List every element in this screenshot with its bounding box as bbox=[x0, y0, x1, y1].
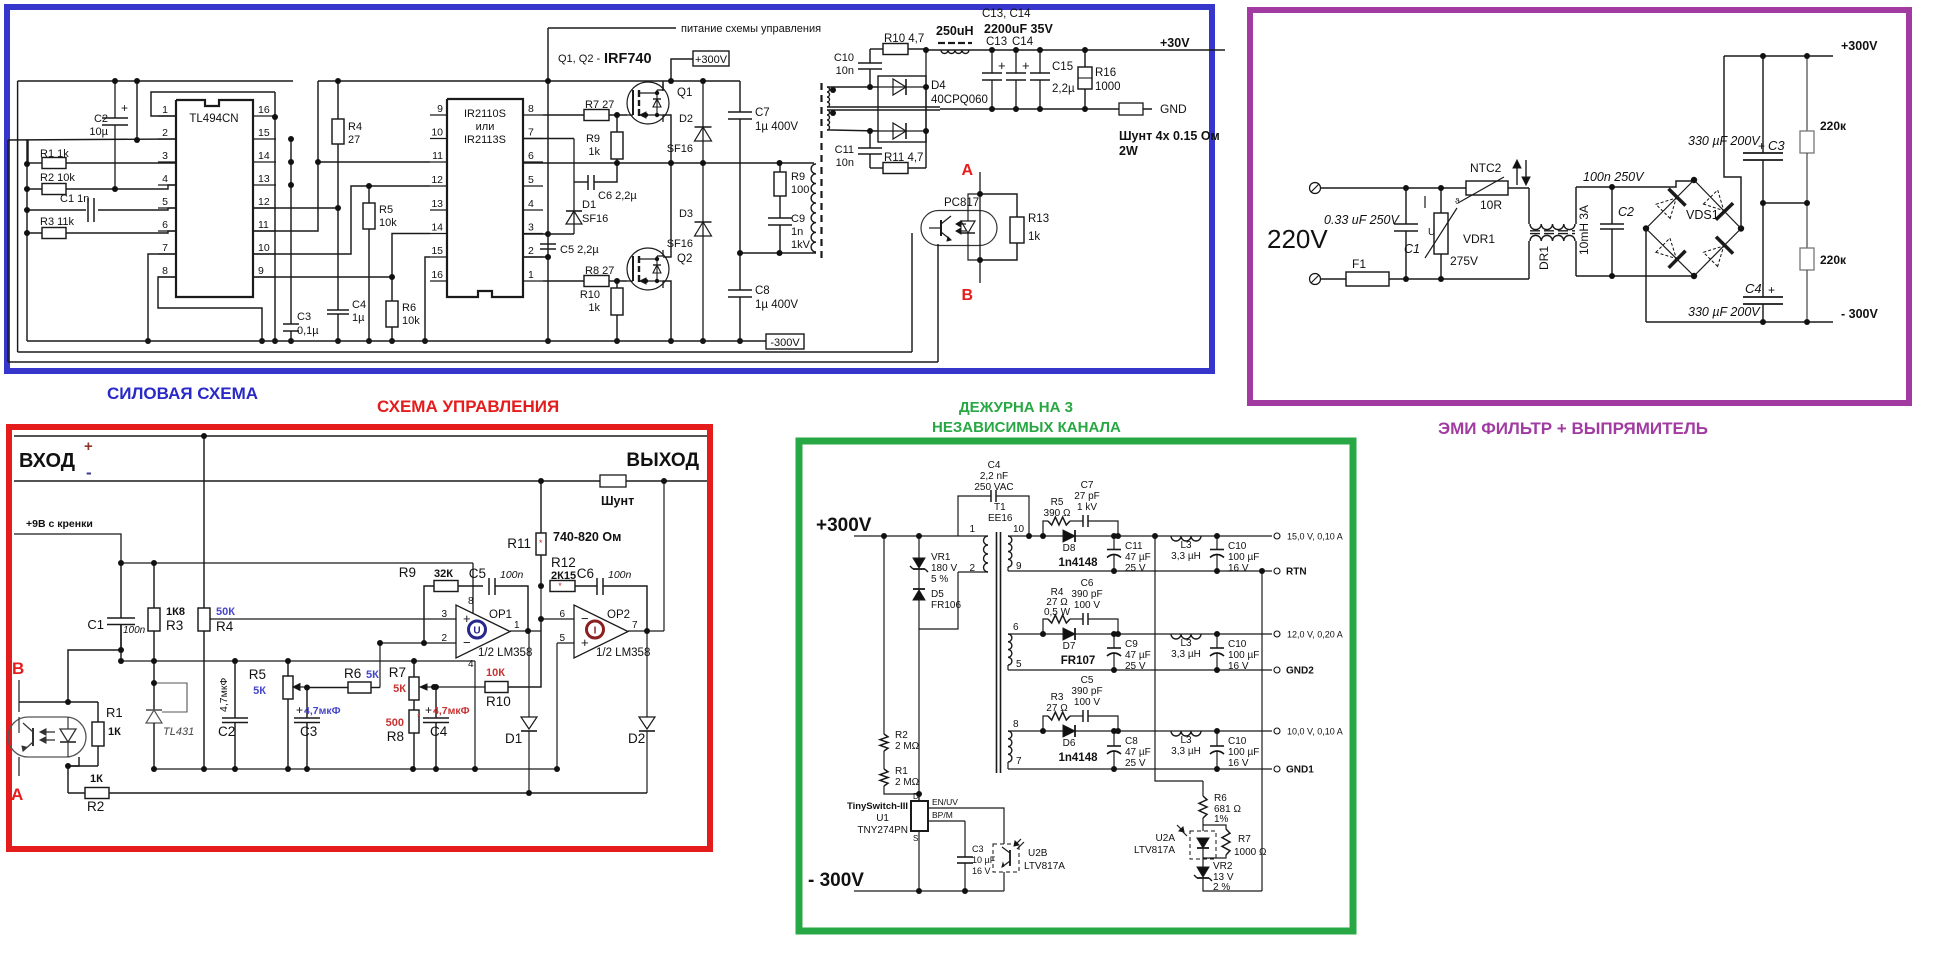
svg-text:+300V: +300V bbox=[1841, 39, 1878, 53]
frame power schematic border (blue) bbox=[7, 7, 1212, 371]
wire +9V rail bbox=[121, 562, 473, 564]
svg-text:15,0 V, 0,10 A: 15,0 V, 0,10 A bbox=[1287, 532, 1343, 542]
svg-text:5К: 5К bbox=[253, 685, 266, 697]
svg-text:D1: D1 bbox=[505, 731, 522, 746]
svg-text:2200uF 35V: 2200uF 35V bbox=[984, 22, 1053, 36]
svg-text:16 V: 16 V bbox=[1228, 563, 1249, 574]
wire ground line RTN bbox=[1008, 570, 1272, 572]
resistor R13 1k bbox=[980, 194, 1049, 260]
svg-text:6: 6 bbox=[1013, 622, 1019, 633]
svg-text:-: - bbox=[86, 463, 92, 482]
capacitor C1 1n bbox=[27, 193, 176, 222]
svg-text:D3: D3 bbox=[679, 208, 693, 220]
svg-text:50К: 50К bbox=[216, 606, 235, 618]
svg-text:2 МΩ: 2 МΩ bbox=[895, 777, 920, 788]
svg-text:VDR1: VDR1 bbox=[1463, 232, 1495, 246]
wire TL494 pin7 to ground bus bbox=[148, 254, 176, 341]
diode D3 SF16 bbox=[667, 163, 712, 341]
transformer polarity dots bbox=[830, 87, 836, 116]
svg-text:C4: C4 bbox=[352, 299, 366, 311]
svg-text:390 Ω: 390 Ω bbox=[1044, 508, 1071, 519]
svg-text:4,7мкФ: 4,7мкФ bbox=[433, 705, 470, 717]
svg-text:10n: 10n bbox=[836, 157, 854, 169]
capacitor C3 0,1u bbox=[283, 311, 319, 341]
svg-text:1 kV: 1 kV bbox=[1077, 502, 1097, 513]
resistor R16 1000 bbox=[1078, 50, 1121, 109]
svg-text:NTC2: NTC2 bbox=[1470, 161, 1502, 175]
svg-text:1: 1 bbox=[969, 524, 975, 535]
svg-text:3: 3 bbox=[528, 222, 534, 234]
svg-text:13: 13 bbox=[431, 198, 443, 210]
shunt regulator TL431 bbox=[146, 661, 194, 769]
svg-text:C3: C3 bbox=[1768, 138, 1785, 153]
svg-text:C6: C6 bbox=[1081, 578, 1094, 589]
wire OP2 output bbox=[628, 630, 664, 632]
wire bridge minus riser bbox=[1645, 229, 1647, 323]
wire between droppers bbox=[883, 751, 885, 769]
svg-text:2 %: 2 % bbox=[1213, 882, 1230, 893]
wire TL494 pin11 riser to bus bbox=[253, 81, 318, 231]
wire net pin2 feedback line bbox=[8, 81, 176, 140]
wire OP2 noninverting input bbox=[557, 642, 574, 644]
wire control bus third bbox=[8, 361, 938, 363]
resistor R5 10k bbox=[363, 186, 397, 341]
resistor 220k upper bbox=[1800, 56, 1847, 203]
resistor R6 681 bbox=[1199, 781, 1241, 825]
capacitor C11 47uF filter bbox=[1107, 536, 1151, 574]
transformer T1 secondary winding 6-5 bbox=[1008, 622, 1022, 670]
svg-text:Q1, Q2 -: Q1, Q2 - bbox=[558, 53, 601, 65]
diode D1 bbox=[505, 631, 537, 793]
svg-text:1000: 1000 bbox=[1095, 81, 1121, 93]
svg-text:100 µF: 100 µF bbox=[1228, 747, 1259, 758]
svg-text:A: A bbox=[961, 162, 973, 179]
varistor VDR1 275V bbox=[1425, 188, 1495, 279]
node A bbox=[11, 757, 23, 804]
svg-text:R4: R4 bbox=[216, 619, 234, 634]
svg-text:ВЫХОД: ВЫХОД bbox=[626, 450, 699, 471]
svg-text:C5: C5 bbox=[469, 566, 486, 581]
resistor R4 50K potentiometer bbox=[198, 436, 235, 769]
svg-text:+: + bbox=[84, 438, 93, 455]
svg-text:ДЕЖУРНА НА 3: ДЕЖУРНА НА 3 bbox=[959, 399, 1073, 416]
wire ground line GND2 bbox=[1008, 669, 1272, 671]
wire +300V rail green bbox=[854, 535, 958, 537]
svg-text:VR2: VR2 bbox=[1213, 861, 1233, 872]
capacitor C6 snubber bbox=[1070, 578, 1118, 634]
capacitor C4 1u bbox=[327, 208, 366, 341]
svg-text:ϑ: ϑ bbox=[1455, 197, 1460, 206]
shunt box output bbox=[600, 475, 634, 508]
resistor R3 11k bbox=[27, 216, 176, 239]
svg-text:R10: R10 bbox=[580, 289, 600, 301]
resistor R4 snubber bbox=[1043, 587, 1071, 634]
svg-text:C10: C10 bbox=[834, 52, 854, 64]
svg-text:D2: D2 bbox=[628, 731, 645, 746]
svg-text:ЭМИ ФИЛЬТР + ВЫПРЯМИТЕЛЬ: ЭМИ ФИЛЬТР + ВЫПРЯМИТЕЛЬ bbox=[1438, 419, 1708, 438]
optocoupler U2A LTV817A bbox=[1134, 818, 1216, 859]
svg-text:1К: 1К bbox=[108, 726, 121, 738]
svg-text:+: + bbox=[425, 703, 432, 717]
resistor R12 2K15 bbox=[550, 555, 597, 592]
resistor R7 27 bbox=[543, 99, 627, 121]
svg-text:- 300V: - 300V bbox=[808, 870, 864, 891]
junction dots channel 12,0 V, 0,20 A bbox=[1040, 631, 1220, 673]
svg-text:СХЕМА УПРАВЛЕНИЯ: СХЕМА УПРАВЛЕНИЯ bbox=[377, 397, 559, 416]
svg-text:5 %: 5 % bbox=[931, 574, 948, 585]
diode D5 FR106 bbox=[913, 569, 961, 629]
wire IR2110 pin11 tap bbox=[318, 161, 430, 163]
wire VCC net питание vertical bbox=[547, 28, 549, 341]
svg-text:6: 6 bbox=[528, 150, 534, 162]
capacitor C10 100uF filter bbox=[1210, 634, 1259, 672]
junction dots power stage bbox=[614, 78, 783, 344]
svg-text:220V: 220V bbox=[1267, 224, 1328, 254]
capacitor C1 0.33uF bbox=[1324, 188, 1420, 279]
svg-text:R1: R1 bbox=[106, 705, 123, 720]
svg-text:2W: 2W bbox=[1119, 144, 1138, 158]
svg-text:1kV: 1kV bbox=[791, 239, 811, 251]
svg-text:1/2 LM358: 1/2 LM358 bbox=[478, 647, 532, 659]
svg-text:+: + bbox=[296, 703, 303, 717]
svg-text:L3: L3 bbox=[1180, 735, 1192, 746]
svg-text:R9: R9 bbox=[791, 171, 805, 183]
svg-text:0.33 uF 250V: 0.33 uF 250V bbox=[1324, 213, 1400, 227]
svg-text:5: 5 bbox=[528, 174, 534, 186]
wire droppers to U1 drain bbox=[884, 786, 919, 794]
resistor R1 1K bbox=[92, 702, 123, 766]
svg-text:10mH 3A: 10mH 3A bbox=[1577, 205, 1591, 255]
capacitor C2 10u bbox=[89, 81, 128, 189]
svg-text:R2: R2 bbox=[87, 799, 104, 814]
wire IR2110 pin15 to ground bbox=[425, 257, 430, 341]
svg-text:Шунт: Шунт bbox=[601, 494, 634, 508]
svg-text:U2A: U2A bbox=[1156, 833, 1176, 844]
resistor 220k lower bbox=[1800, 203, 1847, 322]
svg-text:C8: C8 bbox=[1125, 736, 1138, 747]
label питание схемы управления bbox=[548, 23, 821, 35]
svg-text:SF16: SF16 bbox=[667, 143, 693, 155]
resistor R10 10K bbox=[434, 619, 541, 709]
IC U1 TL494CN bbox=[158, 100, 276, 297]
svg-text:7: 7 bbox=[1016, 756, 1022, 767]
svg-text:2,2µ: 2,2µ bbox=[1052, 83, 1075, 95]
svg-text:+300V: +300V bbox=[816, 515, 872, 536]
svg-text:T1: T1 bbox=[994, 502, 1006, 513]
svg-text:R11: R11 bbox=[507, 536, 531, 551]
node B bbox=[961, 260, 980, 304]
svg-text:10k: 10k bbox=[379, 217, 397, 229]
resistor R6 10k bbox=[386, 301, 420, 341]
svg-text:14: 14 bbox=[431, 222, 443, 234]
transformer T secondary winding lower bbox=[827, 110, 940, 130]
svg-text:U2B: U2B bbox=[1028, 848, 1048, 859]
terminal 12,0 V, 0,20 A bbox=[1274, 630, 1343, 640]
junction dots channel 15,0 V, 0,10 A bbox=[1040, 533, 1220, 574]
zener VR1 180V bbox=[910, 536, 957, 585]
wire snubber node line bbox=[740, 252, 816, 254]
svg-text:R10 4,7: R10 4,7 bbox=[884, 33, 924, 45]
terminal 15,0 V, 0,10 A bbox=[1274, 532, 1343, 542]
resistor R8 500 bbox=[386, 700, 421, 769]
svg-text:4: 4 bbox=[162, 173, 168, 185]
svg-text:IR2110S: IR2110S bbox=[464, 108, 506, 120]
svg-text:16 V: 16 V bbox=[972, 866, 991, 876]
frame control schematic border (red) bbox=[9, 427, 710, 849]
svg-text:SF16: SF16 bbox=[582, 213, 608, 225]
wire control bus second bbox=[18, 351, 912, 353]
transformer T secondary winding upper bbox=[827, 87, 940, 107]
resistor R9 32K feedback bbox=[399, 565, 483, 643]
svg-text:220к: 220к bbox=[1820, 253, 1847, 267]
wire +300V rail bbox=[1724, 55, 1833, 57]
svg-text:U1: U1 bbox=[876, 813, 889, 824]
svg-text:4,7мкФ: 4,7мкФ bbox=[304, 705, 341, 717]
svg-text:500: 500 bbox=[386, 717, 404, 729]
svg-text:330 µF 200V: 330 µF 200V bbox=[1688, 134, 1761, 148]
svg-text:C6 2,2µ: C6 2,2µ bbox=[598, 190, 637, 202]
svg-text:10: 10 bbox=[1013, 524, 1025, 535]
resistor R1 1k bbox=[28, 140, 176, 169]
capacitor C10 100uF filter bbox=[1210, 536, 1259, 574]
svg-text:TL494CN: TL494CN bbox=[189, 113, 238, 125]
wire output line 12,0 V, 0,20 A bbox=[1008, 634, 1272, 670]
svg-text:L3: L3 bbox=[1180, 638, 1192, 649]
svg-text:R6: R6 bbox=[402, 302, 416, 314]
junction dots mid area bbox=[272, 78, 551, 280]
wire bridge plus riser bbox=[1724, 56, 1741, 229]
svg-text:VDS1: VDS1 bbox=[1686, 208, 1719, 222]
svg-text:100n: 100n bbox=[500, 569, 524, 581]
svg-text:D4: D4 bbox=[931, 80, 946, 92]
svg-text:LTV817A: LTV817A bbox=[1024, 861, 1065, 872]
resistor R2 10k bbox=[27, 172, 176, 195]
resistor R5 snubber bbox=[1043, 497, 1071, 536]
svg-text:390 pF: 390 pF bbox=[1071, 686, 1102, 697]
svg-text:+: + bbox=[1768, 283, 1775, 297]
svg-text:15: 15 bbox=[431, 245, 443, 257]
wire -300V rail bbox=[1646, 321, 1833, 323]
svg-text:питание схемы управления: питание схемы управления bbox=[681, 23, 821, 35]
svg-text:C8: C8 bbox=[755, 285, 770, 297]
svg-text:C3: C3 bbox=[972, 844, 984, 854]
optocoupler PC817 bbox=[921, 194, 997, 260]
svg-text:1: 1 bbox=[514, 620, 520, 631]
svg-text:8: 8 bbox=[468, 596, 474, 607]
wire B node link bbox=[19, 625, 121, 703]
transformer T1 core bbox=[997, 532, 1001, 773]
svg-text:R5: R5 bbox=[1051, 497, 1064, 508]
svg-text:2 МΩ: 2 МΩ bbox=[895, 741, 920, 752]
svg-text:11: 11 bbox=[432, 150, 443, 162]
wire Q1 drain to +300V bus bbox=[662, 81, 664, 91]
label shunt value bbox=[1119, 129, 1220, 158]
svg-text:9: 9 bbox=[1016, 561, 1022, 572]
wire left outer loop B bbox=[17, 81, 19, 352]
svg-text:16 V: 16 V bbox=[1228, 758, 1249, 769]
svg-text:5: 5 bbox=[162, 196, 168, 208]
svg-text:НЕЗАВИСИМЫХ КАНАЛА: НЕЗАВИСИМЫХ КАНАЛА bbox=[932, 419, 1121, 436]
svg-text:-300V: -300V bbox=[770, 337, 800, 349]
fuse F1 bbox=[1346, 257, 1529, 286]
zener VR2 13V bbox=[1194, 858, 1262, 893]
label C13 C14 2200uF bbox=[982, 8, 1053, 48]
svg-text:R1: R1 bbox=[895, 766, 908, 777]
svg-text:D7: D7 bbox=[1063, 641, 1076, 652]
wire -300V ground bus bbox=[27, 340, 766, 342]
svg-text:R9: R9 bbox=[399, 565, 416, 580]
svg-text:100: 100 bbox=[791, 184, 809, 196]
svg-text:C3: C3 bbox=[297, 311, 311, 323]
svg-text:15: 15 bbox=[258, 127, 270, 139]
svg-text:D1: D1 bbox=[582, 199, 596, 211]
transformer T core dashed bbox=[820, 83, 822, 260]
resistor R8 27 bbox=[543, 265, 627, 287]
svg-text:SF16: SF16 bbox=[667, 238, 693, 250]
wire OP1 pin8 riser bbox=[472, 563, 474, 614]
resistor R2 1K bbox=[68, 773, 647, 814]
transformer T1 secondary winding 10-9 bbox=[1008, 524, 1025, 572]
svg-text:+: + bbox=[121, 101, 128, 115]
IC U1 TNY274PN TinySwitch bbox=[847, 792, 965, 891]
svg-text:11: 11 bbox=[258, 219, 269, 231]
svg-text:2К15: 2К15 bbox=[551, 570, 576, 582]
svg-text:R6: R6 bbox=[1214, 793, 1227, 804]
svg-text:C10: C10 bbox=[1228, 736, 1247, 747]
wire IR2110 pin12 line with TL494 pin10 riser bbox=[253, 186, 430, 254]
svg-text:10: 10 bbox=[431, 127, 443, 139]
inductor L3 3,3uH bbox=[1171, 536, 1201, 562]
diode D7 FR107 bbox=[1061, 628, 1096, 667]
svg-text:180 V: 180 V bbox=[931, 563, 957, 574]
wire top supply bus left segment bbox=[18, 80, 293, 82]
svg-text:1n: 1n bbox=[791, 226, 803, 238]
svg-text:1: 1 bbox=[162, 104, 168, 116]
svg-text:1: 1 bbox=[528, 269, 534, 281]
capacitor C4 330uF 200V bbox=[1688, 203, 1783, 322]
resistor R6 5K bbox=[307, 666, 380, 693]
svg-text:C11: C11 bbox=[835, 144, 854, 156]
wire output line 10,0 V, 0,10 A bbox=[1008, 731, 1272, 769]
svg-text:C6: C6 bbox=[577, 566, 594, 581]
svg-text:R3: R3 bbox=[1051, 692, 1064, 703]
svg-text:R8: R8 bbox=[387, 729, 404, 744]
capacitor C8 1u 400V bbox=[728, 253, 798, 341]
diode D2 bbox=[628, 631, 655, 793]
wire +30V rail bbox=[926, 49, 1225, 51]
capacitor C13 2200uF bbox=[982, 50, 1006, 109]
svg-text:10R: 10R bbox=[1480, 198, 1502, 212]
svg-text:Q2: Q2 bbox=[677, 253, 692, 265]
svg-text:3: 3 bbox=[162, 150, 168, 162]
terminal RTN bbox=[1274, 567, 1307, 578]
svg-text:+300V: +300V bbox=[695, 54, 728, 66]
resistor R11 740-820 bbox=[507, 481, 621, 586]
svg-text:2: 2 bbox=[441, 633, 447, 644]
svg-text:7: 7 bbox=[632, 620, 638, 631]
svg-text:1/2 LM358: 1/2 LM358 bbox=[596, 647, 650, 659]
capacitor C7 1u 400V bbox=[728, 81, 798, 253]
svg-text:- 300V: - 300V bbox=[1841, 307, 1878, 321]
capacitor C9 1n 1kV bbox=[768, 213, 811, 253]
resistor R7 5K potentiometer bbox=[389, 661, 434, 700]
svg-text:GND1: GND1 bbox=[1286, 765, 1314, 776]
terminal GND2 bbox=[1274, 666, 1314, 677]
wire output line 15,0 V, 0,10 A bbox=[1008, 536, 1272, 571]
svg-text:Q1: Q1 bbox=[677, 87, 692, 99]
svg-text:100n 250V: 100n 250V bbox=[1583, 170, 1645, 184]
svg-text:R12: R12 bbox=[551, 555, 576, 570]
resistor R1 2M bbox=[880, 766, 920, 788]
svg-text:C13, C14: C13, C14 bbox=[982, 8, 1031, 20]
svg-text:C7: C7 bbox=[1081, 480, 1094, 491]
svg-text:4: 4 bbox=[468, 659, 474, 670]
wire middle-to-bottom link bbox=[474, 661, 476, 769]
svg-text:R1 1k: R1 1k bbox=[40, 148, 69, 160]
capacitor C7 snubber bbox=[1070, 480, 1118, 536]
capacitor C6 100n feedback bbox=[577, 566, 647, 631]
power +300V box bbox=[671, 51, 729, 81]
resistor R5 5K potentiometer bbox=[249, 661, 307, 769]
svg-text:8: 8 bbox=[1013, 719, 1019, 730]
wire OP2 plus riser bbox=[556, 643, 558, 769]
svg-text:C9: C9 bbox=[791, 213, 805, 225]
svg-text:TNY274PN: TNY274PN bbox=[857, 825, 908, 836]
svg-text:U: U bbox=[473, 626, 480, 637]
svg-text:+: + bbox=[1022, 58, 1030, 73]
optocoupler U opto input side bbox=[8, 717, 86, 757]
svg-text:+9В с кренки: +9В с кренки bbox=[26, 518, 93, 530]
rectifier D4 40CPQ060 bbox=[878, 50, 988, 142]
svg-text:ВХОД: ВХОД bbox=[19, 450, 75, 472]
svg-text:5К: 5К bbox=[366, 669, 379, 681]
inductor DR1 common mode choke bbox=[1529, 187, 1591, 279]
frame EMI filter border (purple) bbox=[1250, 10, 1909, 403]
wire TL494 pin9 to R6 column bbox=[253, 276, 392, 278]
svg-text:C1 1n: C1 1n bbox=[60, 193, 89, 205]
svg-text:FR106: FR106 bbox=[931, 600, 961, 611]
svg-text:R6: R6 bbox=[344, 666, 361, 681]
svg-text:C7: C7 bbox=[755, 107, 770, 119]
svg-text:100n: 100n bbox=[123, 625, 146, 636]
svg-text:EN/UV: EN/UV bbox=[932, 797, 958, 807]
svg-text:47 µF: 47 µF bbox=[1125, 747, 1151, 758]
svg-text:2: 2 bbox=[528, 245, 534, 257]
svg-text:8: 8 bbox=[162, 265, 168, 277]
svg-text:C10: C10 bbox=[1228, 639, 1247, 650]
bridge rectifier VDS1 bbox=[1643, 177, 1744, 279]
svg-text:D8: D8 bbox=[1063, 543, 1076, 554]
svg-text:10 µF: 10 µF bbox=[972, 855, 996, 865]
svg-text:C3: C3 bbox=[300, 724, 317, 739]
svg-text:3: 3 bbox=[441, 609, 447, 620]
svg-text:TL431: TL431 bbox=[163, 726, 194, 738]
capacitor C3 330uF 200V bbox=[1688, 56, 1785, 203]
svg-text:10k: 10k bbox=[402, 315, 420, 327]
svg-text:R7: R7 bbox=[389, 665, 406, 680]
wire bottom bus red box bbox=[154, 768, 557, 770]
wire GND rail bbox=[940, 108, 1152, 110]
svg-text:*: * bbox=[417, 712, 421, 722]
inductor L3 3,3uH bbox=[1171, 634, 1201, 660]
resistor R3 1K8 bbox=[148, 563, 185, 661]
svg-text:GND2: GND2 bbox=[1286, 666, 1314, 677]
wire Q1 source to mid node bbox=[663, 115, 671, 163]
svg-text:250 VAC: 250 VAC bbox=[974, 482, 1013, 493]
inductor L 250uH bbox=[936, 24, 974, 54]
svg-text:1k: 1k bbox=[588, 146, 600, 158]
svg-text:GND: GND bbox=[1160, 102, 1187, 116]
